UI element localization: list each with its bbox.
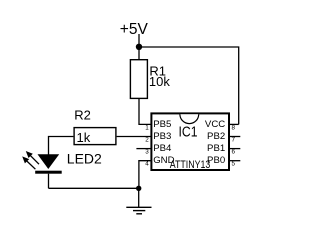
svg-text:8: 8: [232, 124, 236, 131]
svg-text:2: 2: [145, 137, 149, 144]
LED light arrow 2: [22, 156, 35, 169]
resistor R2 body: [74, 128, 116, 145]
wire top horizontal to VCC branch: [139, 47, 239, 124]
svg-text:ATTINY13: ATTINY13: [170, 159, 211, 171]
wire +5V to junction: [138, 34, 140, 47]
pin 5 PB0 stub wire: [230, 160, 241, 162]
svg-text:PB1: PB1: [207, 143, 225, 154]
pin 7 PB2 stub wire: [230, 136, 241, 138]
svg-text:IC1: IC1: [179, 124, 198, 140]
svg-text:10k: 10k: [149, 74, 170, 89]
LED LED2 cathode bar: [35, 171, 62, 174]
node junction +5V dot: [136, 44, 142, 50]
wire R2 left to LED anode: [49, 137, 74, 155]
svg-text:VCC: VCC: [205, 119, 225, 130]
pin 6 PB1 stub wire: [230, 148, 241, 150]
wire junction to R1 top: [138, 47, 140, 60]
svg-text:3: 3: [145, 149, 149, 156]
LED light arrow 1: [26, 151, 39, 164]
svg-text:GND: GND: [153, 155, 174, 166]
svg-text:PB4: PB4: [153, 143, 172, 154]
ground: [126, 207, 151, 214]
svg-text:6: 6: [232, 149, 236, 156]
wire R2 to pin 2 PB3: [117, 136, 151, 138]
pin 8 VCC stub wire: [230, 123, 239, 125]
svg-text:7: 7: [232, 137, 236, 144]
IC1 notch: [180, 114, 199, 123]
svg-text:PB2: PB2: [207, 131, 225, 142]
svg-text:5: 5: [232, 161, 236, 168]
LED LED2 triangle anode: [38, 154, 60, 169]
svg-text:4: 4: [145, 161, 149, 168]
op IC1 ATTINY13 body: [151, 113, 229, 170]
wire GND pin 4 down to junction: [139, 161, 151, 189]
svg-text:LED2: LED2: [67, 151, 102, 167]
wire LED cathode down: [48, 174, 50, 189]
wire bottom horizontal to ground junction: [49, 187, 139, 189]
svg-text:PB3: PB3: [153, 131, 171, 142]
svg-text:+5V: +5V: [120, 21, 149, 38]
svg-text:PB5: PB5: [153, 119, 171, 130]
pin 3 PB4 stub wire: [136, 148, 150, 150]
svg-text:R2: R2: [74, 108, 91, 123]
wire R1 bottom to pin 1 PB5: [139, 99, 151, 124]
resistor R1 body: [130, 60, 147, 99]
node junction ground dot: [136, 186, 141, 191]
svg-text:PB0: PB0: [207, 155, 225, 166]
svg-text:1k: 1k: [77, 130, 91, 145]
svg-text:1: 1: [145, 124, 149, 131]
wire junction to ground symbol: [138, 188, 140, 207]
